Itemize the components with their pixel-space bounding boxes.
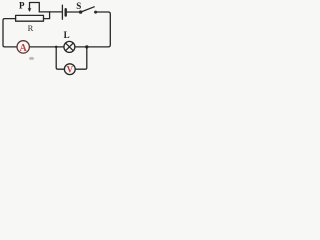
svg-text:A: A xyxy=(19,43,27,54)
svg-text:V: V xyxy=(67,65,74,75)
svg-text:L: L xyxy=(64,30,70,40)
svg-text:P: P xyxy=(19,0,25,10)
svg-text:S: S xyxy=(76,1,81,11)
svg-text:R: R xyxy=(28,23,34,33)
